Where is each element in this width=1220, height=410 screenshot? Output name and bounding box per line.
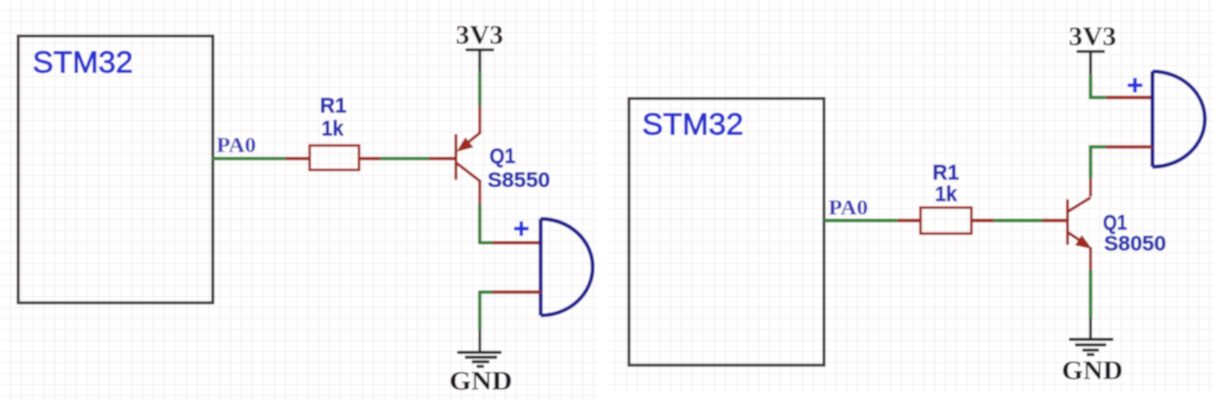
label S8550 (left)	[488, 169, 551, 192]
label R1 (left)	[320, 95, 347, 118]
label S8050 (right)	[1104, 233, 1166, 256]
label + polarity (left)	[514, 221, 529, 236]
ground symbol (left)	[457, 330, 501, 367]
label Q1 (left)	[490, 145, 516, 168]
svg-text:PA0: PA0	[217, 133, 257, 157]
wire Q1 emitter to GND (right)	[1089, 270, 1092, 318]
svg-text:GND: GND	[449, 367, 512, 396]
pin label PA0 (right)	[829, 195, 869, 219]
wire PA0 to R1 (right)	[824, 219, 922, 222]
label GND (left)	[449, 367, 512, 396]
MCU box STM32 (right)	[629, 99, 824, 366]
label GND (right)	[1062, 356, 1123, 385]
label STM32 (left)	[33, 45, 134, 80]
svg-text:S8050: S8050	[1104, 233, 1166, 256]
left canvas	[2, 0, 598, 400]
label 1k (left)	[322, 118, 344, 141]
label 1k (right)	[935, 183, 957, 206]
wire 3V3 to Q1 emitter (left)	[478, 72, 481, 106]
svg-text:GND: GND	[1062, 356, 1123, 385]
wire R1 to Q1 base (right)	[971, 219, 1066, 222]
wire 3V3 to buzzer + (right)	[1091, 74, 1153, 99]
buzzer (left)	[541, 219, 593, 316]
resistor R1 (right)	[921, 208, 972, 234]
svg-text:Q1: Q1	[1103, 212, 1127, 235]
svg-text:3V3: 3V3	[1069, 22, 1117, 51]
label Q1 (right)	[1103, 212, 1127, 235]
svg-text:3V3: 3V3	[456, 20, 504, 49]
label STM32 (right)	[642, 107, 744, 142]
buzzer (right)	[1152, 71, 1204, 166]
label 3V3 (right)	[1069, 22, 1117, 51]
pin label PA0 (left)	[217, 133, 257, 157]
wire Q1 collector to buzzer + (left)	[480, 205, 541, 245]
svg-text:1k: 1k	[322, 118, 344, 141]
wire PA0 to R1 (left)	[212, 157, 311, 160]
svg-text:S8550: S8550	[488, 169, 551, 192]
transistor Q1 S8050 NPN (right)	[1068, 179, 1093, 271]
wire buzzer - to GND (left)	[480, 291, 541, 330]
wire R1 to Q1 base (left)	[359, 157, 455, 160]
svg-text:PA0: PA0	[829, 195, 869, 219]
power symbol 3V3 (right)	[1077, 52, 1105, 75]
label R1 (right)	[933, 162, 960, 185]
right canvas	[608, 0, 1214, 392]
label 3V3 (left)	[456, 20, 504, 49]
svg-text:1k: 1k	[935, 183, 957, 206]
svg-text:Q1: Q1	[490, 145, 516, 168]
power symbol 3V3 (left)	[466, 50, 494, 72]
svg-text:STM32: STM32	[33, 45, 134, 80]
transistor Q1 S8550 PNP (left)	[456, 105, 480, 206]
wire buzzer - to Q1 collector (right)	[1091, 145, 1153, 178]
label + polarity (right)	[1128, 78, 1143, 93]
svg-text:R1: R1	[320, 95, 347, 118]
MCU box STM32 (left)	[18, 36, 213, 303]
ground symbol (right)	[1069, 318, 1113, 355]
svg-text:R1: R1	[933, 162, 960, 185]
svg-text:STM32: STM32	[642, 107, 744, 142]
resistor R1 (left)	[310, 146, 359, 170]
